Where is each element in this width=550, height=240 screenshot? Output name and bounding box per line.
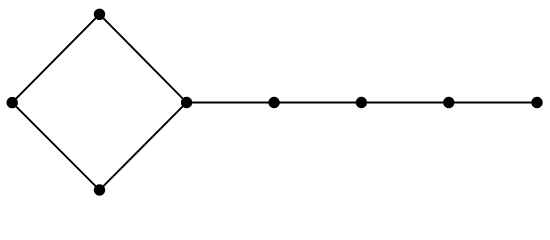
node C (bottom of diamond): [94, 184, 105, 195]
wire edge A-B (top to left): [12, 14, 99, 102]
wire edge E-F: [274, 102, 361, 104]
node D (right junction of diamond): [181, 97, 192, 108]
node G (path node 3): [443, 97, 454, 108]
wire edge C-D (bottom to right junction): [100, 103, 187, 191]
node B (left of diamond): [7, 97, 18, 108]
node H (path end node): [531, 97, 542, 108]
node F (path node 2): [356, 97, 367, 108]
wire edge A-D (top to right junction): [100, 14, 187, 102]
wire edge D-E: [187, 102, 275, 104]
wire edge F-G: [361, 102, 448, 104]
node A (top of diamond): [94, 9, 105, 20]
wire edge G-H: [449, 102, 537, 104]
node E (path node 1): [268, 97, 279, 108]
wire edge B-C (left to bottom): [12, 103, 99, 190]
